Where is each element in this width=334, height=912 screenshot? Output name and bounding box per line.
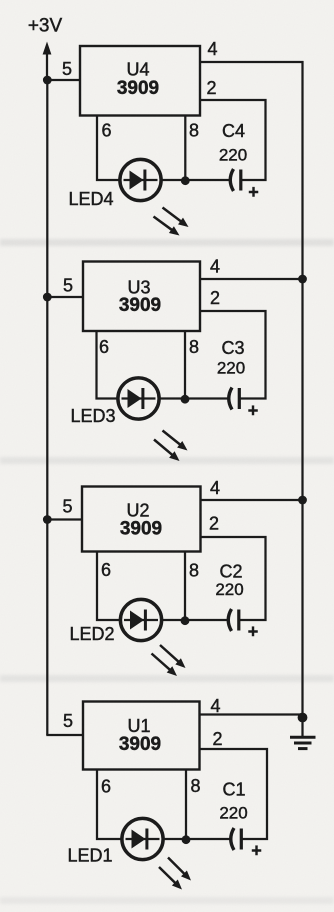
light emission arrows (LED2) (152, 645, 186, 676)
junction: ground rail / U3 pin 4 (298, 275, 307, 284)
IC U2 designator (126, 501, 149, 521)
capacitor C1 (electrolytic 220uF) (231, 828, 243, 850)
junction: +3V rail / U4 pin 5 (43, 76, 52, 85)
pin number 5 (U1) (63, 711, 73, 731)
capacitor C4 (electrolytic 220uF) (230, 169, 242, 191)
pin number 8 (U1) (190, 776, 200, 796)
wire: pin 6 of U3 down to LED3 anode (97, 331, 120, 399)
junction: +3V rail / U2 pin 5 (43, 515, 52, 524)
pin number 4 (U2) (210, 478, 220, 498)
IC U3 box (LM3909) (83, 262, 200, 332)
pin number 4 (U1) (210, 696, 220, 716)
wire: LED4 cathode to capacitor C4 (160, 179, 231, 181)
IC U4 box (LM3909) (80, 46, 200, 116)
wire: pin 6 of U2 down to LED2 anode (97, 552, 122, 621)
wire: pin 8 of U3 down to LED3 cathode node (184, 331, 186, 399)
wire: pin 2 of U1 to capacitor C1 positive terminal (200, 749, 268, 839)
wire: pin 4 of U3 to ground rail (200, 278, 304, 280)
pin number 6 (U2) (101, 560, 111, 580)
value 220 (C3) (217, 359, 245, 378)
pin number 6 (U1) (101, 777, 111, 797)
value 220 (C1) (219, 804, 247, 823)
label LED2 (69, 624, 114, 644)
wire: pin 6 of U4 down to LED4 anode (97, 116, 122, 181)
LED LED1 (122, 818, 163, 859)
light emission arrows (LED4) (154, 208, 189, 236)
wire: pin 5 of U4 to +3V rail (46, 79, 80, 81)
wire: pin 4 of U1 to ground rail (200, 713, 304, 715)
LED LED2 (120, 599, 161, 640)
label LED3 (70, 406, 115, 426)
junction: U1 pin 4 / ground rail (298, 713, 308, 723)
junction: ground rail / U2 pin 4 (298, 496, 307, 505)
junction: pin 8 / LED4 / C4 (181, 176, 190, 185)
label C1 (222, 780, 245, 800)
pin number 8 (U4) (189, 121, 199, 141)
wire: pin 2 of U2 to capacitor C2 positive terminal (201, 537, 266, 620)
IC U2 value 3909 (120, 519, 162, 540)
label C2 (219, 562, 242, 582)
wire: pin 6 of U1 down to LED1 anode (97, 770, 124, 840)
IC U3 designator (127, 278, 150, 298)
pin number 8 (U3) (189, 337, 199, 357)
junction: pin 8 / LED2 / C2 (181, 616, 190, 625)
junction: pin 8 / LED1 / C1 (182, 835, 191, 844)
+3V arrow symbol (43, 42, 52, 81)
pin number 5 (U4) (62, 59, 72, 79)
IC U1 box (LM3909) (83, 702, 200, 770)
LED LED3 (118, 378, 159, 419)
pin number 6 (U3) (99, 337, 109, 357)
capacitor C3 (electrolytic 220uF) (229, 388, 241, 410)
IC U4 value 3909 (117, 78, 159, 99)
pin number 4 (U4) (207, 39, 217, 59)
label LED4 (68, 189, 113, 209)
value 220 (C4) (219, 146, 247, 165)
wire: pin 4 of U2 to ground rail (201, 499, 304, 501)
pin number 2 (U2) (209, 514, 219, 534)
light emission arrows (LED1) (159, 858, 191, 890)
wire: +3V left rail (46, 79, 48, 735)
pin number 4 (U3) (210, 257, 220, 277)
label C4 (222, 121, 245, 141)
wire: pin 5 of U2 to +3V rail (46, 518, 82, 520)
ground symbol (290, 718, 316, 749)
IC U3 value 3909 (119, 295, 161, 316)
polarity + mark (C4) (248, 182, 259, 202)
polarity + mark (C2) (248, 622, 259, 642)
polarity + mark (C1) (251, 841, 262, 861)
label C3 (221, 338, 244, 358)
wire: pin 5 of U3 to +3V rail (46, 296, 83, 298)
light emission arrows (LED3) (154, 431, 188, 462)
wire: LED2 cathode to capacitor C2 (160, 619, 228, 621)
IC U1 designator (127, 716, 150, 736)
IC U1 value 3909 (119, 734, 161, 755)
wire: pin 2 of U4 to capacitor C4 positive terminal (200, 100, 266, 180)
wire: LED1 cathode to capacitor C1 (162, 838, 231, 840)
LED LED4 (120, 159, 161, 200)
IC U2 box (LM3909) (82, 487, 201, 552)
pin number 8 (U2) (189, 561, 199, 581)
pin number 2 (U4) (206, 78, 216, 98)
wire: right ground rail (301, 61, 303, 718)
junction: +3V rail / U3 pin 5 (43, 293, 52, 302)
capacitor C2 (electrolytic 220uF) (228, 609, 240, 631)
IC U4 designator (126, 60, 149, 80)
node +3V supply label (28, 16, 63, 37)
wire: pin 4 of U4 to ground rail (200, 61, 304, 63)
wire: pin 8 of U1 down to LED1 cathode node (185, 770, 187, 840)
wire: pin 8 of U4 down to LED4 cathode node (184, 116, 186, 181)
pin number 2 (U1) (212, 729, 222, 749)
pin number 2 (U3) (210, 288, 220, 308)
pin number 5 (U2) (62, 497, 72, 517)
wire: LED3 cathode to capacitor C3 (158, 397, 229, 399)
pin number 6 (U4) (101, 121, 111, 141)
value 220 (C2) (215, 580, 243, 599)
wire: pin 2 of U3 to capacitor C3 positive terminal (200, 311, 266, 399)
label LED1 (67, 846, 112, 866)
pin number 5 (U3) (63, 276, 73, 296)
polarity + mark (C3) (248, 401, 259, 421)
junction: pin 8 / LED3 / C3 (181, 395, 190, 404)
wire: pin 8 of U2 down to LED2 cathode node (184, 552, 186, 621)
wire: pin 5 of U1 to +3V rail (46, 734, 83, 736)
